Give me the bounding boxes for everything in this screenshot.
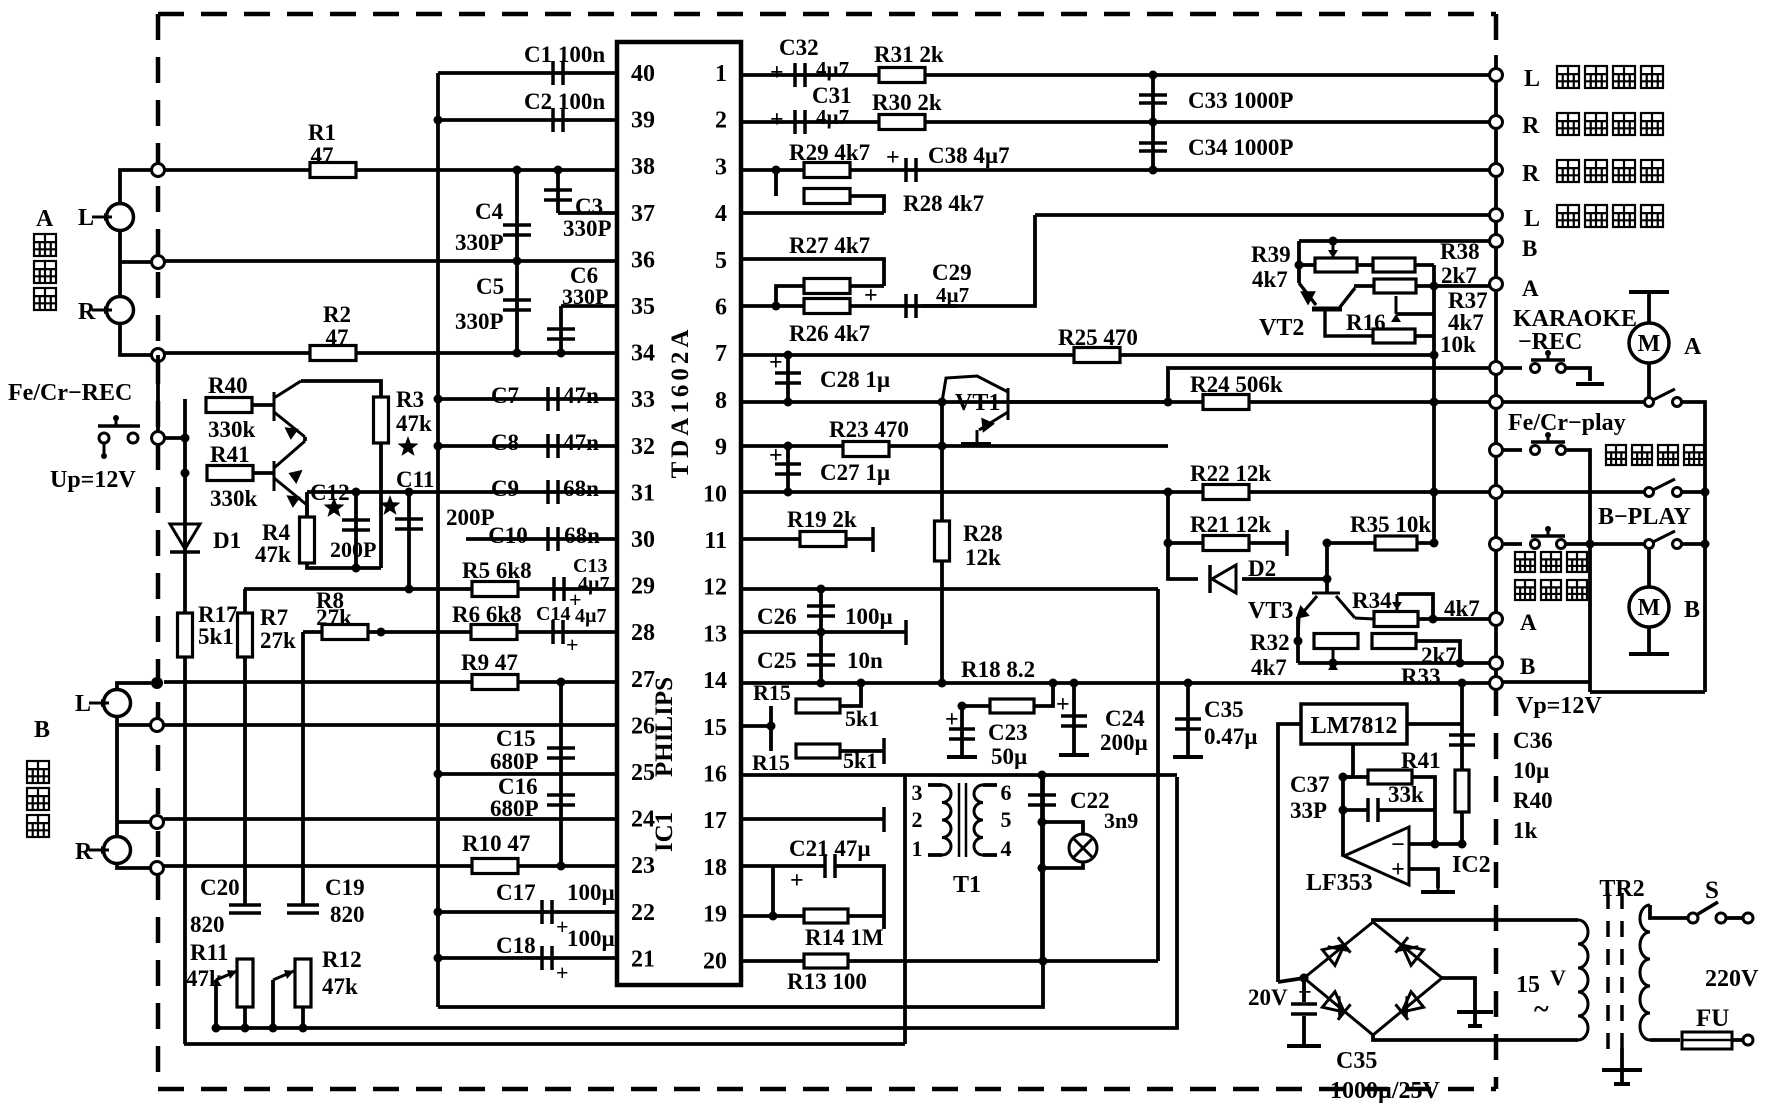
resistor R27 <box>804 279 850 294</box>
svg-text:24: 24 <box>631 807 655 833</box>
svg-text:C14: C14 <box>536 603 570 625</box>
svg-text:14: 14 <box>703 668 727 694</box>
capacitor C32 <box>795 63 805 87</box>
svg-text:R25 470: R25 470 <box>1058 325 1138 350</box>
resistor R5 <box>472 582 518 597</box>
wire row pin17 <box>741 817 884 821</box>
capacitor C35b 0.47u <box>1186 683 1190 755</box>
wire row pin28 <box>303 630 617 634</box>
node L rec in <box>1490 209 1503 222</box>
node fecr play row <box>1490 444 1503 457</box>
svg-text:R16: R16 <box>1346 310 1386 335</box>
svg-text:33P: 33P <box>1290 798 1327 823</box>
svg-text:4k7: 4k7 <box>1251 655 1287 680</box>
wire karaoke row jog <box>1168 368 1490 402</box>
svg-text:7: 7 <box>715 341 727 367</box>
node row 544 <box>1490 538 1503 551</box>
svg-text:3n9: 3n9 <box>1104 808 1138 833</box>
wire border node chain row34 to switch <box>156 355 160 438</box>
svg-text:21: 21 <box>631 946 655 972</box>
bridge diode 4 <box>1395 992 1423 1020</box>
capacitor C38 <box>906 158 916 182</box>
svg-text:47: 47 <box>311 143 334 168</box>
transistor pair lower <box>274 441 307 505</box>
svg-text:C1 100n: C1 100n <box>524 42 605 67</box>
svg-text:B−PLAY: B−PLAY <box>1598 504 1691 530</box>
resistor R41 <box>207 466 253 481</box>
svg-text:R3: R3 <box>396 387 424 412</box>
resistor R19 <box>800 532 846 547</box>
wire row pin14 Vp rail <box>741 681 1490 685</box>
wire row pin38 <box>164 168 617 172</box>
svg-text:R10 47: R10 47 <box>462 831 530 856</box>
svg-text:R26 4k7: R26 4k7 <box>789 321 870 346</box>
wire row pin26 <box>164 723 617 727</box>
tape head A R terminal <box>107 297 134 324</box>
svg-text:C27 1µ: C27 1µ <box>820 460 890 485</box>
node Up=12V <box>152 432 165 445</box>
node terminal row23 <box>151 862 164 875</box>
wire row pin5 stub <box>741 259 884 286</box>
svg-text:TDA1602A: TDA1602A <box>667 326 694 479</box>
svg-text:R14 1M: R14 1M <box>805 925 884 950</box>
svg-text:L: L <box>1524 206 1540 232</box>
resistor R32 pot <box>1314 634 1358 649</box>
capacitor C22 <box>1040 775 1044 961</box>
ground TR2 <box>1620 1048 1624 1068</box>
switch Fe/Cr-play <box>1502 448 1522 452</box>
T1 top wire <box>905 773 1177 777</box>
wire row pin25 <box>438 772 617 776</box>
svg-text:20: 20 <box>703 948 727 974</box>
svg-text:R1: R1 <box>308 120 336 145</box>
transistor VT2 <box>1299 283 1372 336</box>
capacitor C13 <box>554 577 564 601</box>
svg-text:22: 22 <box>631 900 655 926</box>
svg-text:C19: C19 <box>325 875 365 900</box>
svg-text:200P: 200P <box>330 537 376 562</box>
svg-text:+: + <box>770 107 784 133</box>
svg-text:30: 30 <box>631 527 655 553</box>
svg-text:5k1: 5k1 <box>843 748 877 773</box>
lamp <box>1042 822 1083 835</box>
svg-text:47k: 47k <box>396 411 432 436</box>
resistor R9 <box>472 675 518 690</box>
svg-text:R40: R40 <box>1513 788 1553 813</box>
capacitor C17 <box>542 900 552 924</box>
svg-text:M: M <box>1638 331 1661 357</box>
resistor R40b vertical <box>1455 770 1469 812</box>
selector switch B-PLAY <box>1645 540 1654 549</box>
svg-text:D1: D1 <box>213 528 241 553</box>
svg-text:C37: C37 <box>1290 772 1330 797</box>
wire C29 up to L rec line <box>921 215 1035 306</box>
ground VT1 <box>961 442 991 446</box>
svg-text:33k: 33k <box>1388 782 1424 807</box>
svg-text:100µ: 100µ <box>567 880 615 905</box>
node R play out <box>1490 116 1503 129</box>
wire row pin6 <box>741 304 957 308</box>
resistor R8 <box>322 625 368 640</box>
svg-text:47n: 47n <box>563 430 599 455</box>
wire B row bottom <box>1298 661 1490 665</box>
svg-text:23: 23 <box>631 853 655 879</box>
svg-text:R33: R33 <box>1401 664 1441 689</box>
capacitor C4 <box>515 170 519 261</box>
selector switch row8 <box>1502 400 1644 404</box>
wire row pin3 R rec in <box>741 168 1490 172</box>
svg-text:C36: C36 <box>1513 728 1553 753</box>
junction row27 x561 <box>557 678 566 687</box>
svg-text:L: L <box>1524 66 1540 92</box>
svg-text:R41: R41 <box>210 442 250 467</box>
svg-text:47n: 47n <box>563 383 599 408</box>
svg-text:+: + <box>864 283 878 309</box>
IC U1 right pin numbers 1-20 <box>703 61 727 974</box>
svg-text:+: + <box>769 443 783 469</box>
svg-text:+: + <box>1056 692 1070 718</box>
svg-text:C4: C4 <box>475 199 504 224</box>
wire row pin31 <box>307 490 617 494</box>
svg-text:R28: R28 <box>963 521 1003 546</box>
svg-text:32: 32 <box>631 434 655 460</box>
wire row pin16 <box>741 773 905 777</box>
svg-text:T1: T1 <box>953 872 981 898</box>
svg-text:IC2: IC2 <box>1452 852 1491 878</box>
svg-text:34: 34 <box>631 341 655 367</box>
resistor R14 <box>804 909 848 923</box>
capacitor C8 <box>548 434 558 458</box>
wire node to x185 <box>164 436 185 440</box>
svg-text:68n: 68n <box>564 523 600 548</box>
capacitor C12 <box>354 492 358 568</box>
wire bridge top to TR2 <box>1373 920 1578 922</box>
svg-text:4k7: 4k7 <box>1252 267 1288 292</box>
svg-text:39: 39 <box>631 108 655 134</box>
wire head B L up to row27 <box>117 683 151 689</box>
svg-text:D2: D2 <box>1248 556 1276 581</box>
svg-text:6: 6 <box>715 295 727 321</box>
svg-text:5: 5 <box>1001 807 1012 832</box>
capacitor C9 <box>548 480 558 504</box>
wire head B tap row24 <box>117 820 151 824</box>
wire row pin20 <box>741 959 1158 963</box>
svg-text:C33 1000P: C33 1000P <box>1188 88 1293 113</box>
star mark R3 <box>398 436 419 456</box>
svg-text:6: 6 <box>1001 780 1012 805</box>
svg-text:330P: 330P <box>455 230 504 255</box>
svg-text:R39: R39 <box>1251 242 1291 267</box>
svg-text:L: L <box>75 691 91 717</box>
selector switch row10 <box>1502 490 1644 494</box>
wire row pin40 <box>438 71 617 75</box>
wire R4 bottom loop <box>307 562 381 568</box>
resistor R21 <box>1203 536 1249 551</box>
transistor pair upper <box>274 381 305 437</box>
svg-text:V: V <box>1550 965 1566 990</box>
wire bridge left <box>1278 978 1304 982</box>
svg-text:C34 1000P: C34 1000P <box>1188 135 1293 160</box>
wire R11 bottom <box>243 1007 247 1028</box>
svg-text:4: 4 <box>715 201 727 227</box>
svg-text:17: 17 <box>703 808 727 834</box>
wire row pin2 R play out <box>741 120 1490 124</box>
resistor R40 <box>206 398 252 413</box>
svg-text:C7: C7 <box>491 383 519 408</box>
transformer TR2 right winding <box>1640 905 1650 1040</box>
svg-text:C2 100n: C2 100n <box>524 89 605 114</box>
svg-text:R29 4k7: R29 4k7 <box>789 140 870 165</box>
svg-text:R11: R11 <box>190 940 228 965</box>
svg-text:R19 2k: R19 2k <box>787 507 857 532</box>
svg-text:R12: R12 <box>322 947 362 972</box>
wire row pin11 <box>741 537 801 541</box>
node terminal row34 <box>152 349 165 362</box>
capacitor C3 <box>556 170 560 213</box>
svg-text:Vp=12V: Vp=12V <box>1516 693 1602 719</box>
label high speed rec switch <box>1515 552 1535 572</box>
wire motor A down <box>1647 363 1651 398</box>
wire row pin36 <box>164 259 617 263</box>
motor A tbar <box>1629 290 1669 294</box>
label rec switch <box>1606 445 1626 465</box>
resistor R6 <box>471 625 517 640</box>
svg-text:+: + <box>1391 857 1405 883</box>
svg-text:R28 4k7: R28 4k7 <box>903 191 984 216</box>
svg-text:1k: 1k <box>1513 818 1538 843</box>
svg-text:820: 820 <box>190 912 225 937</box>
bridge diode 1 <box>1322 937 1350 965</box>
svg-text:8: 8 <box>715 388 727 414</box>
svg-text:C11: C11 <box>396 467 434 492</box>
svg-text:330k: 330k <box>210 486 258 511</box>
wire row pin18 <box>741 864 826 868</box>
svg-text:31: 31 <box>631 480 655 506</box>
svg-text:10n: 10n <box>847 648 883 673</box>
svg-text:820: 820 <box>330 902 365 927</box>
wire collector up to R3 <box>301 381 381 398</box>
svg-text:9: 9 <box>715 435 727 461</box>
svg-text:29: 29 <box>631 574 655 600</box>
svg-text:27k: 27k <box>316 605 352 630</box>
bus wire y1044 <box>184 1042 905 1046</box>
wire row pin4 stub <box>741 211 884 215</box>
wire head A chain L-R <box>118 231 122 296</box>
svg-text:11: 11 <box>704 528 727 554</box>
svg-text:35: 35 <box>631 294 655 320</box>
svg-text:R31 2k: R31 2k <box>874 42 944 67</box>
svg-text:50µ: 50µ <box>991 744 1027 769</box>
wire row pin15 <box>741 724 771 728</box>
wire head A L to node pin38 row <box>120 170 152 203</box>
resistor R18 <box>990 699 1034 713</box>
svg-text:B: B <box>1684 597 1700 623</box>
resistor R30 <box>879 115 925 130</box>
svg-text:36: 36 <box>631 247 655 273</box>
capacitor C34 <box>1151 122 1155 170</box>
resistor R38 <box>1373 258 1415 272</box>
resistor R28b 12k vertical <box>935 521 950 561</box>
svg-text:220V: 220V <box>1705 966 1759 992</box>
terminal column solid <box>1494 55 1498 683</box>
svg-text:R18 8.2: R18 8.2 <box>961 657 1035 682</box>
resistor R1 <box>310 163 356 178</box>
svg-text:+: + <box>556 960 569 985</box>
capacitor C25 <box>819 632 823 683</box>
svg-text:C8: C8 <box>491 430 519 455</box>
resistor R29 <box>804 163 850 178</box>
wire head A tap row36 <box>120 260 152 264</box>
resistor R35 <box>1375 536 1417 550</box>
svg-text:38: 38 <box>631 154 655 180</box>
node A2 <box>1490 613 1503 626</box>
wire row pin24 <box>164 817 617 821</box>
wire row pin13 <box>741 630 906 634</box>
svg-text:R34: R34 <box>1352 588 1392 613</box>
wire x1168 down <box>1166 492 1170 543</box>
wire row pin33 <box>438 397 617 401</box>
dashed enclosure border <box>158 14 1496 1089</box>
frame bottom <box>1590 690 1705 694</box>
svg-text:S: S <box>1705 877 1719 904</box>
svg-text:VT3: VT3 <box>1248 598 1293 624</box>
resistor R10 <box>472 859 518 874</box>
transformer TR2 left winding <box>1578 920 1588 1040</box>
node terminal row38 <box>152 164 165 177</box>
resistor R17 <box>178 613 193 657</box>
capacitor C35 1000u <box>1302 978 1306 1002</box>
node terminal row36 <box>152 256 165 269</box>
wire opamp plus to gnd <box>1409 869 1438 888</box>
svg-text:R40: R40 <box>208 373 248 398</box>
svg-text:4µ7: 4µ7 <box>575 605 607 627</box>
pot R11 <box>237 959 253 1007</box>
svg-text:40: 40 <box>631 61 655 87</box>
svg-text:VT2: VT2 <box>1259 315 1304 341</box>
capacitor C15 <box>559 682 563 867</box>
svg-text:C28 1µ: C28 1µ <box>820 367 890 392</box>
svg-text:20V: 20V <box>1248 985 1288 1010</box>
svg-text:R7: R7 <box>260 605 288 630</box>
svg-text:PHILIPS: PHILIPS <box>651 677 678 777</box>
resistor R13 <box>804 954 848 968</box>
svg-text:47k: 47k <box>255 542 291 567</box>
svg-text:R: R <box>78 299 96 325</box>
node junction deck B L <box>151 677 163 689</box>
svg-text:C17: C17 <box>496 880 536 905</box>
svg-text:4µ7: 4µ7 <box>936 283 969 307</box>
svg-text:R22 12k: R22 12k <box>1190 461 1271 486</box>
wire row pin19 <box>741 914 805 918</box>
ground motor B <box>1647 627 1651 652</box>
transistor VT3 <box>1298 593 1374 640</box>
svg-text:2: 2 <box>715 108 727 134</box>
svg-text:C21 47µ: C21 47µ <box>789 836 871 861</box>
svg-text:L: L <box>78 205 94 231</box>
svg-text:28: 28 <box>631 620 655 646</box>
svg-text:16: 16 <box>703 762 727 788</box>
svg-text:10: 10 <box>703 481 727 507</box>
svg-text:R5 6k8: R5 6k8 <box>462 558 532 583</box>
capacitor C37 <box>1368 798 1378 822</box>
svg-text:R23 470: R23 470 <box>829 417 909 442</box>
svg-text:B: B <box>1522 236 1537 261</box>
wire bridge right to gnd <box>1442 978 1475 1010</box>
svg-text:200µ: 200µ <box>1100 730 1148 755</box>
svg-text:5k1: 5k1 <box>845 706 879 731</box>
svg-text:~: ~ <box>1534 994 1549 1025</box>
svg-text:R: R <box>1522 113 1540 139</box>
svg-text:C23: C23 <box>988 720 1028 745</box>
wire opamp minus <box>1409 842 1435 846</box>
svg-text:5k1: 5k1 <box>198 624 234 649</box>
wire LM7812 gnd down <box>1351 744 1355 777</box>
resistor R31 <box>879 68 925 83</box>
capacitor C1 <box>553 61 563 85</box>
capacitor C26 <box>819 589 823 632</box>
resistor R4 <box>300 517 315 563</box>
svg-text:100µ: 100µ <box>567 926 615 951</box>
op-amp IC2 LF353 <box>1344 827 1409 885</box>
svg-text:2: 2 <box>912 807 923 832</box>
svg-text:12k: 12k <box>965 545 1001 570</box>
capacitor C20 <box>229 905 261 913</box>
IC U1 TDA1602A body <box>617 42 741 985</box>
svg-text:1: 1 <box>912 836 923 861</box>
node A <box>1490 278 1503 291</box>
pot R12 <box>295 959 311 1007</box>
capacitor C27 electrolytic <box>786 446 790 492</box>
capacitor C14 <box>553 620 563 644</box>
svg-text:R13 100: R13 100 <box>787 969 867 994</box>
node R rec in <box>1490 164 1503 177</box>
svg-text:FU: FU <box>1696 1005 1729 1032</box>
motor M A <box>1629 323 1669 363</box>
svg-text:R38: R38 <box>1440 239 1480 264</box>
svg-text:330k: 330k <box>208 417 256 442</box>
wire row pin21 <box>438 956 617 960</box>
svg-text:47: 47 <box>326 325 349 350</box>
svg-text:C15: C15 <box>496 726 536 751</box>
vertical x185 R40/R41/D1 column <box>183 399 187 1044</box>
tape head A L terminal <box>107 204 134 231</box>
wire row31 left end down <box>305 492 309 518</box>
resistor R3 <box>374 397 389 443</box>
node L play out <box>1490 69 1503 82</box>
svg-text:R: R <box>75 839 93 865</box>
svg-text:A: A <box>1684 334 1702 360</box>
svg-text:R2: R2 <box>323 302 351 327</box>
svg-text:3: 3 <box>715 154 727 180</box>
vertical bus x438 <box>436 73 440 1007</box>
wire row pin32 <box>438 444 617 448</box>
node karaoke row <box>1490 362 1503 375</box>
capacitor C7 <box>548 387 558 411</box>
wire row pin12 <box>741 587 1158 591</box>
capacitor C31 <box>795 110 805 134</box>
capacitor C2 <box>553 108 563 132</box>
svg-text:R32: R32 <box>1250 630 1290 655</box>
svg-text:12: 12 <box>703 575 727 601</box>
svg-text:4µ7: 4µ7 <box>816 57 849 81</box>
node B2 <box>1490 657 1503 670</box>
bus wire y1007 <box>438 775 1043 1007</box>
capacitor C5 <box>515 261 519 353</box>
switch S <box>1650 905 1687 918</box>
svg-text:4µ7: 4µ7 <box>816 105 849 129</box>
switch high speed rec <box>1502 542 1522 546</box>
svg-text:10µ: 10µ <box>1513 758 1549 783</box>
